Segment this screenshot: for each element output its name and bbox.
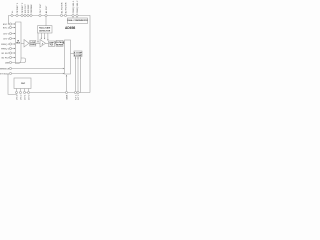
svg-text:OFFSET 1: OFFSET 1 (17, 2, 19, 13)
svg-text:FREQ SEL 1: FREQ SEL 1 (73, 0, 75, 13)
svg-text:FREQ 1: FREQ 1 (1, 44, 10, 46)
svg-text:OFFSET NULL: OFFSET NULL (0, 73, 10, 75)
svg-text:LEV 1: LEV 1 (24, 94, 26, 100)
svg-text:OFFSET 2: OFFSET 2 (22, 2, 24, 13)
svg-text:LEV 1: LEV 1 (3, 33, 10, 35)
svg-text:LEV 2: LEV 2 (28, 94, 30, 100)
svg-text:FREQ SEL 2: FREQ SEL 2 (77, 0, 79, 13)
svg-text:FREQ 2: FREQ 2 (1, 48, 10, 50)
svg-text:OUT 2: OUT 2 (78, 94, 80, 100)
svg-text:B2 FILT: B2 FILT (2, 57, 10, 59)
svg-text:EXC 2: EXC 2 (20, 94, 22, 100)
svg-text:DUAL COMPARATOR: DUAL COMPARATOR (67, 19, 88, 22)
svg-text:OUT FILT: OUT FILT (40, 3, 42, 13)
svg-text:A1 FILT: A1 FILT (45, 5, 48, 13)
svg-text:EXC 1: EXC 1 (16, 94, 18, 100)
svg-text:SIG OUT: SIG OUT (25, 4, 27, 14)
svg-text:B2 FILTER: B2 FILTER (65, 2, 67, 13)
svg-text:PASS: PASS (30, 43, 36, 46)
svg-text:EXC 1: EXC 1 (3, 24, 10, 26)
svg-text:FEEDBK: FEEDBK (31, 4, 33, 13)
svg-text:B COMP: B COMP (74, 55, 83, 57)
svg-text:-BIN: -BIN (5, 62, 10, 64)
svg-text:AD698: AD698 (65, 26, 75, 30)
svg-text:B1 FILTER: B1 FILTER (61, 2, 63, 13)
svg-text:NULL/GAIN: NULL/GAIN (39, 27, 50, 30)
svg-text:SIG REFERENCE: SIG REFERENCE (0, 68, 10, 70)
svg-text:B1 FILT: B1 FILT (2, 53, 10, 55)
svg-text:DETECTOR: DETECTOR (39, 30, 51, 32)
svg-text:FEEDBK: FEEDBK (66, 94, 68, 100)
svg-text:LEV 2: LEV 2 (3, 38, 10, 40)
svg-text:REFER: REFER (56, 44, 63, 46)
svg-text:SIG REF: SIG REF (28, 4, 30, 13)
svg-text:OSC: OSC (21, 83, 26, 85)
svg-text:EXC 2: EXC 2 (3, 27, 10, 29)
